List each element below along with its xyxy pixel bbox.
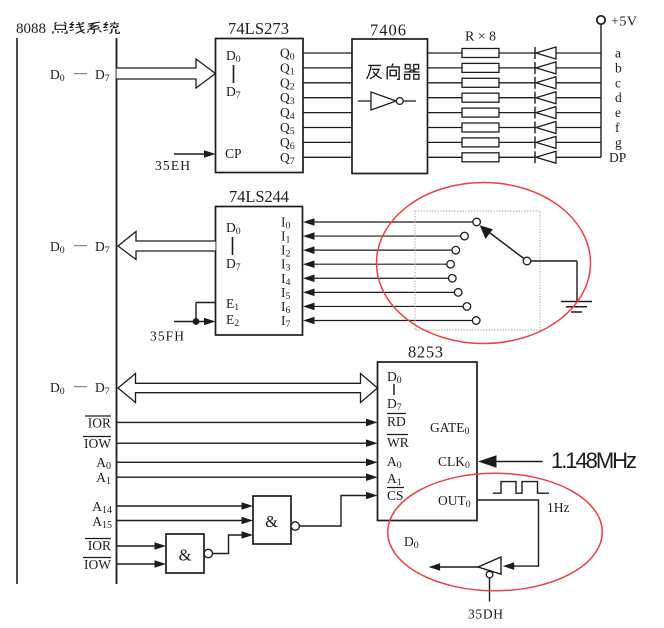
svg-text:8088: 8088 (16, 21, 46, 37)
svg-text:e: e (615, 105, 621, 120)
svg-text:7406: 7406 (370, 21, 406, 40)
svg-text:74LS244: 74LS244 (229, 187, 289, 206)
LED D2 (segment b) (535, 62, 556, 74)
wire Q4 from 74LS273 to 7406 (303, 112, 352, 114)
LED D3 (segment c) (535, 77, 556, 89)
net IOR label (85, 416, 111, 431)
wire I7 from switch to 74LS244 (303, 317, 472, 325)
wire I5 from switch to 74LS244 (303, 289, 454, 297)
wire pole to ground (531, 261, 577, 301)
svg-text:—: — (73, 237, 88, 252)
LED D1 (segment a) (535, 47, 556, 59)
wire I1 from switch to 74LS244 (303, 232, 461, 240)
svg-text:R×8: R×8 (465, 30, 496, 45)
LED D6 (segment f) (535, 122, 556, 134)
pin RD (active low) (387, 414, 406, 430)
svg-text:—: — (73, 65, 88, 80)
svg-text:GATE0: GATE0 (430, 420, 470, 437)
pin D0..D7 inside 74LS273 (226, 48, 241, 101)
wire 35DH control (489, 578, 491, 602)
switch contact 4 (449, 274, 457, 282)
inverter symbol inside 7406 (358, 92, 416, 110)
wire A0 (117, 459, 378, 467)
wire A1 (117, 473, 378, 481)
svg-text:DP: DP (609, 150, 626, 165)
red ellipse around switch (377, 183, 591, 344)
wire resistor to LED 5 (499, 127, 535, 129)
pins D0..D7 inside 8253 (387, 369, 402, 413)
wire Q7 from 74LS273 to 7406 (303, 156, 352, 158)
wire resistor to LED 4 (499, 112, 535, 114)
svg-text:f: f (615, 120, 620, 135)
wire LED to +5V rail row 5 (556, 127, 601, 129)
wire LED to +5V rail row 4 (556, 112, 601, 114)
label inverter (反向器) (367, 64, 420, 80)
wire 7406 out row 0 (428, 52, 463, 54)
wire 7406 out row 7 (428, 156, 463, 158)
svg-text:8253: 8253 (408, 343, 443, 362)
svg-text:35EH: 35EH (155, 158, 190, 173)
wire CLK0 input with big arrow (478, 455, 543, 468)
net A1 label (96, 470, 111, 487)
wire 7406 out row 2 (428, 82, 463, 84)
wire Q0 from 74LS273 to 7406 (303, 52, 352, 54)
node D0-D7 (bottom bus label) (50, 378, 110, 397)
switch contact 1 (461, 232, 469, 240)
wire: double-headed hollow bus arrow to 8253 (118, 374, 378, 403)
pin CS (active low) (387, 488, 404, 504)
wire I3 from switch to 74LS244 (303, 260, 447, 268)
wire LED to +5V rail row 0 (556, 52, 601, 54)
svg-text:IOW: IOW (84, 436, 111, 451)
LED D7 (segment g) (535, 136, 556, 148)
svg-text:35FH: 35FH (150, 329, 184, 344)
wire resistor to LED 1 (499, 67, 535, 69)
buffer U3 74LS244 (216, 207, 303, 336)
pins D0..D7 inside 74LS244 (226, 220, 241, 273)
wire OUT0 to inverter (477, 500, 539, 570)
switch pole contact (523, 257, 531, 265)
svg-text:IOR: IOR (88, 416, 111, 431)
net IOW label (83, 436, 111, 451)
wire: hollow bus arrow 74LS244 to bus (118, 232, 216, 260)
red ellipse around output circuit (388, 473, 603, 591)
ground (561, 302, 592, 313)
wire buffer output to D0 (429, 563, 478, 571)
switch contact 2 (452, 246, 460, 254)
switch contact 5 (454, 289, 462, 297)
wire A15 to NAND1 (117, 517, 254, 525)
switch contact 0 (473, 218, 481, 226)
LED D5 (segment e) (535, 107, 556, 119)
switch box S1 (DIP frame) (415, 211, 540, 330)
wire A14 to NAND1 (117, 502, 254, 510)
wire IOW to NAND2 (117, 560, 167, 568)
wire LED to +5V rail row 2 (556, 82, 601, 84)
resistor R7 (462, 138, 499, 147)
wire LED to +5V rail row 3 (556, 97, 601, 99)
pins I0..I7 labels (281, 215, 291, 330)
wire NAND1 out to CS (299, 492, 377, 526)
wire: 35EH clock into CP (174, 150, 216, 158)
wire 7406 out row 5 (428, 127, 463, 129)
wire: right bus line (116, 38, 118, 584)
wire IOR to RD (117, 419, 378, 427)
svg-text:+5V: +5V (611, 15, 637, 30)
svg-text:—: — (73, 378, 88, 393)
wire I2 from switch to 74LS244 (303, 246, 452, 254)
svg-text:35DH: 35DH (468, 607, 503, 622)
resistor R6 (462, 123, 499, 132)
node D0-D7 (mid bus label) (50, 237, 110, 256)
wire I6 from switch to 74LS244 (303, 303, 463, 311)
LED D8 (segment DP) (535, 151, 556, 163)
tri-state buffer (35DH controlled) (478, 557, 501, 578)
wire resistor to LED 0 (499, 52, 535, 54)
resistor R8 (462, 153, 499, 162)
svg-text:RD: RD (387, 414, 406, 429)
net A0 label (96, 455, 111, 472)
switch arm wire with arrow (480, 225, 524, 258)
net IOW2 label (83, 557, 111, 572)
wire resistor to LED 6 (499, 141, 535, 143)
latch U1 74LS273 (216, 39, 304, 173)
svg-text:d: d (615, 90, 622, 105)
svg-text:CP: CP (225, 146, 242, 161)
wire 7406 out row 3 (428, 97, 463, 99)
net IOR2 label (85, 538, 111, 553)
node D0-D7 (top bus label) (50, 65, 110, 84)
wire Q5 from 74LS273 to 7406 (303, 127, 352, 129)
svg-text:a: a (615, 46, 621, 61)
wire IOW to WR (117, 439, 378, 447)
wire resistor to LED 7 (499, 156, 535, 158)
resistor R2 (462, 63, 499, 72)
wire resistor to LED 3 (499, 97, 535, 99)
NAND gate U6 (upper &) (253, 496, 299, 544)
wire Q6 from 74LS273 to 7406 (303, 141, 352, 143)
resistor R3 (462, 78, 499, 87)
wire 35FH to E2 with branch to E1 (174, 303, 216, 326)
svg-text:c: c (615, 75, 621, 90)
resistor R1 (462, 49, 499, 58)
NAND gate U5 (lower &) (166, 534, 213, 573)
pin WR (active low) (387, 435, 409, 451)
wire 7406 out row 4 (428, 112, 463, 114)
wire IOR to NAND2 (117, 542, 167, 550)
svg-text:b: b (615, 60, 622, 75)
+5V terminal (597, 15, 637, 30)
LED D4 (segment d) (535, 92, 556, 104)
wire LED to +5V rail row 1 (556, 67, 601, 69)
switch contact 7 (472, 317, 480, 325)
wire: bus arrow into 74LS273 (hollow) (117, 59, 216, 88)
labels a..g, DP (609, 46, 626, 165)
wire Q1 from 74LS273 to 7406 (303, 67, 352, 69)
wire I4 from switch to 74LS244 (303, 274, 449, 282)
resistor R5 (462, 108, 499, 117)
svg-text:74LS273: 74LS273 (228, 19, 289, 38)
wire resistor to LED 2 (499, 82, 535, 84)
svg-text:&: & (265, 512, 278, 531)
svg-text:IOW: IOW (84, 557, 111, 572)
svg-text:1Hz: 1Hz (547, 500, 570, 515)
svg-text:CS: CS (387, 488, 404, 503)
wire Q3 from 74LS273 to 7406 (303, 97, 352, 99)
wire +5V rail (600, 24, 602, 158)
inverter U2 7406 box (352, 39, 428, 174)
wire LED to +5V rail row 7 (556, 156, 601, 158)
timer U4 8253 (378, 362, 478, 521)
switch contact 6 (463, 303, 471, 311)
wire Q2 from 74LS273 to 7406 (303, 82, 352, 84)
wire I0 from switch to 74LS244 (303, 218, 473, 226)
svg-text:&: & (179, 546, 192, 565)
svg-text:WR: WR (387, 435, 409, 450)
svg-text:1.148MHz: 1.148MHz (551, 448, 637, 473)
switch contact 3 (447, 260, 455, 268)
wire LED to +5V rail row 6 (556, 141, 601, 143)
clock waveform symbol (493, 482, 549, 494)
pins Q0..Q7 labels (280, 46, 295, 167)
resistor R4 (462, 93, 499, 102)
wire 7406 out row 1 (428, 67, 463, 69)
wire NAND2 out to NAND1 input (213, 531, 254, 553)
svg-text:IOR: IOR (88, 538, 111, 553)
wire: left bus line (16, 38, 18, 584)
label 8088 bus system (8088总线系统) (16, 21, 119, 37)
svg-text:g: g (615, 135, 622, 150)
wire 7406 out row 6 (428, 141, 463, 143)
